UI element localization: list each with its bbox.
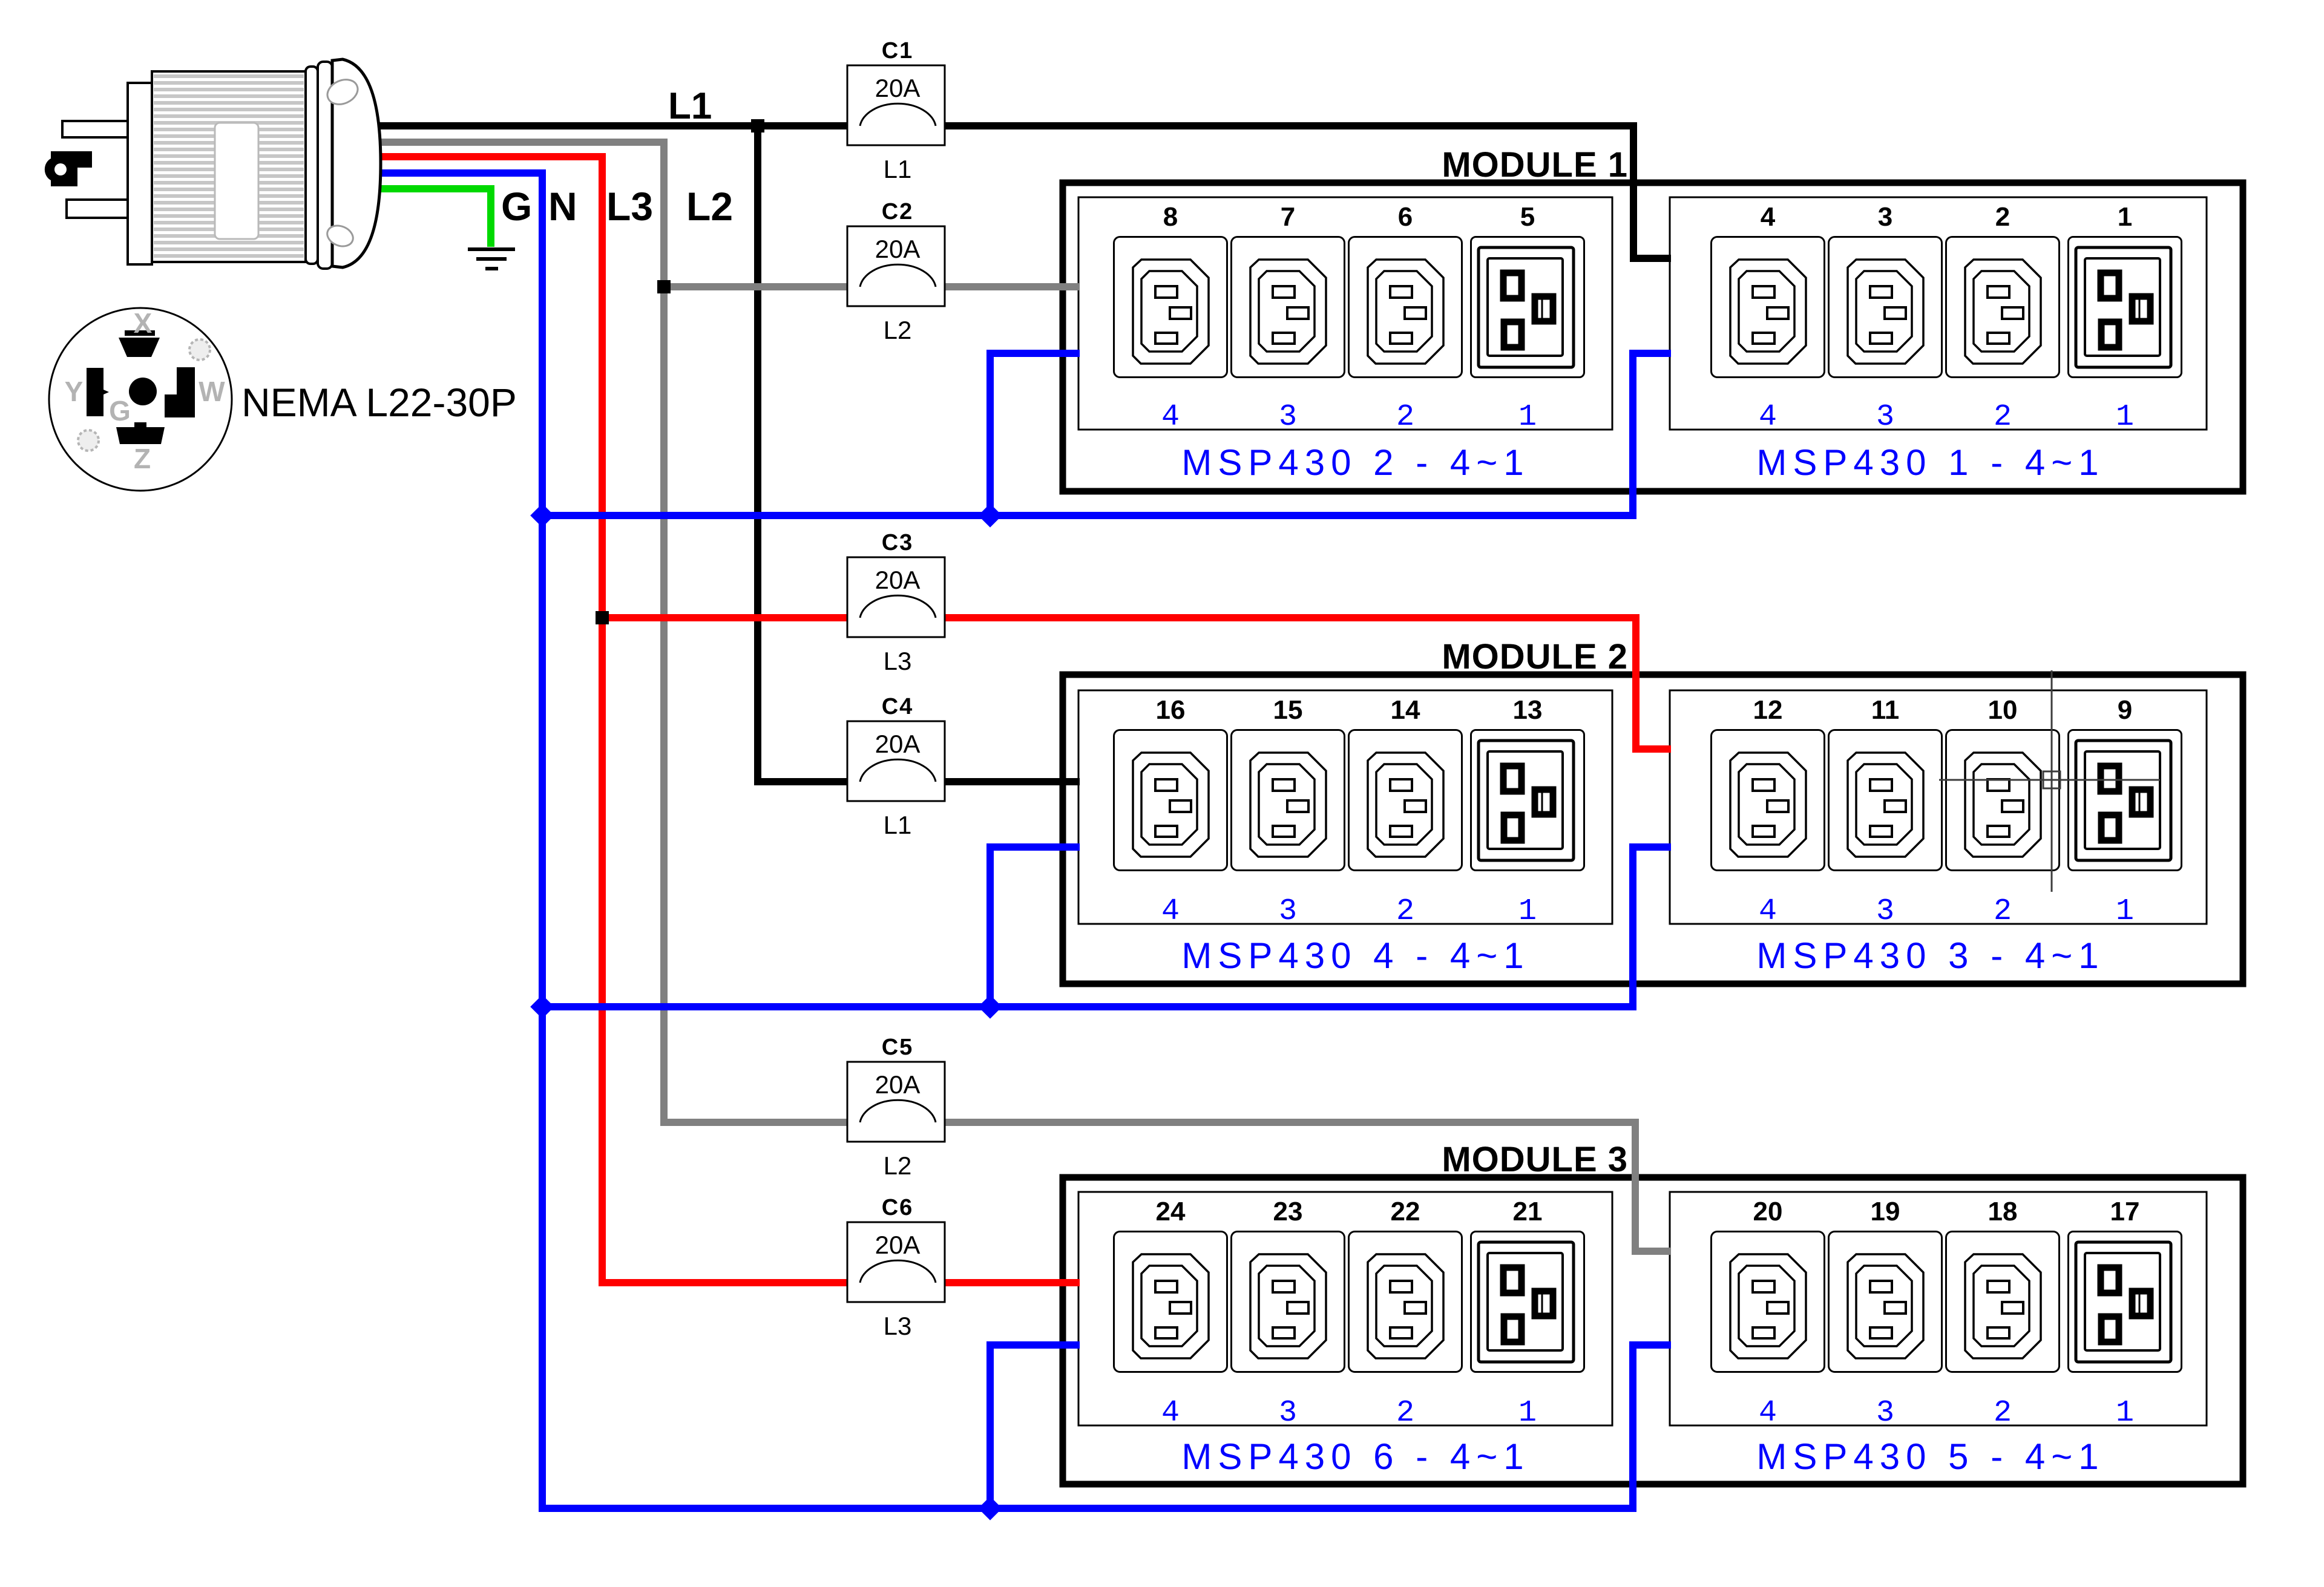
svg-text:L1: L1 [668, 85, 712, 127]
svg-text:C3: C3 [882, 530, 914, 555]
svg-text:20A: 20A [875, 566, 921, 594]
svg-text:MSP430 4 - 4~1: MSP430 4 - 4~1 [1181, 935, 1529, 976]
wire neutral branch module 1 left bank [990, 353, 1080, 515]
wire L2 from C5 to module 3 right bank [936, 1122, 1671, 1251]
svg-text:W: W [199, 376, 225, 407]
circuit breaker C5 20A phase L2 [847, 1035, 945, 1180]
svg-text:3: 3 [1279, 1396, 1297, 1430]
outlet 5 (IEC C19) module 1 left bank [1471, 237, 1584, 378]
node N bus tap module 2 [530, 995, 554, 1019]
svg-text:4: 4 [1161, 400, 1180, 434]
svg-text:12: 12 [1753, 695, 1783, 725]
svg-text:NEMA L22-30P: NEMA L22-30P [241, 380, 517, 425]
svg-text:MODULE 2: MODULE 2 [1442, 637, 1628, 676]
svg-text:Z: Z [134, 443, 151, 474]
svg-text:5: 5 [1520, 202, 1535, 232]
svg-text:15: 15 [1273, 695, 1303, 725]
outlet 3 (IEC C13) module 1 right bank [1829, 237, 1942, 378]
svg-text:4: 4 [1759, 894, 1777, 929]
svg-text:2: 2 [1396, 1396, 1414, 1430]
svg-text:MSP430 1 - 4~1: MSP430 1 - 4~1 [1756, 442, 2104, 483]
module M3 enclosure box [1063, 1177, 2243, 1484]
svg-text:19: 19 [1871, 1197, 1900, 1226]
svg-text:Y: Y [65, 376, 84, 407]
wire L1 branch down to breaker C4 [758, 126, 860, 782]
svg-text:2: 2 [1994, 894, 2012, 929]
svg-text:1: 1 [2116, 400, 2134, 434]
outlet 14 (IEC C13) module 2 left bank [1349, 730, 1462, 871]
outlet bank MSP430 board (module 2 left) [1078, 690, 1612, 924]
pin G center [129, 378, 157, 405]
connector face NEMA L22-30P pin diagram [49, 307, 232, 491]
outlet 23 (IEC C13) module 3 left bank [1232, 1232, 1345, 1372]
wire L3 from C6 to module 3 left bank [936, 1279, 1080, 1286]
svg-text:8: 8 [1163, 202, 1178, 232]
svg-text:16: 16 [1156, 695, 1186, 725]
svg-text:10: 10 [1988, 695, 2018, 725]
outlet 4 (IEC C13) module 1 right bank [1712, 237, 1825, 378]
svg-text:MSP430 3 - 4~1: MSP430 3 - 4~1 [1756, 935, 2104, 976]
svg-text:MSP430 6 - 4~1: MSP430 6 - 4~1 [1181, 1436, 1529, 1477]
svg-text:G: G [109, 395, 131, 427]
svg-text:21: 21 [1513, 1197, 1543, 1226]
wire L2 phase from plug down to breaker C5 [363, 142, 860, 1122]
svg-text:9: 9 [2118, 695, 2132, 725]
node N branch module 3 [978, 1496, 1002, 1520]
outlet bank MSP430 board (module 1 right) [1670, 197, 2207, 430]
circuit breaker C4 20A phase L1 [847, 694, 945, 839]
outlet 10 (IEC C13) module 2 right bank [1946, 730, 2060, 871]
outlet 12 (IEC C13) module 2 right bank [1712, 730, 1825, 871]
svg-text:2: 2 [1396, 400, 1414, 434]
wire neutral bus module 2 [542, 847, 1671, 1007]
wire L3 from C3 to module 2 right bank [936, 618, 1671, 749]
svg-text:C5: C5 [882, 1035, 914, 1060]
svg-text:MODULE 3: MODULE 3 [1442, 1140, 1628, 1179]
svg-text:24: 24 [1156, 1197, 1186, 1226]
svg-text:20A: 20A [875, 74, 921, 102]
svg-text:13: 13 [1513, 695, 1543, 725]
svg-text:3: 3 [1878, 202, 1892, 232]
circuit breaker C1 20A phase L1 [847, 38, 945, 183]
outlet 15 (IEC C13) module 2 left bank [1232, 730, 1345, 871]
outlet bank MSP430 board (module 3 right) [1670, 1192, 2207, 1425]
svg-text:4: 4 [1161, 894, 1180, 929]
outlet 17 (IEC C19) module 3 right bank [2069, 1232, 2182, 1372]
screw bottom-left [78, 430, 99, 451]
outlet bank MSP430 board (module 3 left) [1078, 1192, 1612, 1425]
svg-text:MSP430 5 - 4~1: MSP430 5 - 4~1 [1756, 1436, 2104, 1477]
svg-text:3: 3 [1876, 400, 1894, 434]
svg-text:MSP430 2 - 4~1: MSP430 2 - 4~1 [1181, 442, 1529, 483]
svg-text:G: G [501, 184, 532, 229]
svg-text:20A: 20A [875, 235, 921, 263]
svg-text:L3: L3 [884, 1312, 912, 1340]
svg-text:4: 4 [1759, 400, 1777, 434]
svg-text:4: 4 [1161, 1396, 1180, 1430]
svg-text:L2: L2 [686, 184, 733, 229]
node N branch module 1 [978, 503, 1002, 528]
circuit breaker C2 20A phase L2 [847, 199, 945, 344]
wire ground G from plug to earth symbol [363, 189, 491, 247]
node N bus tap module 1 [530, 503, 554, 528]
svg-text:X: X [134, 307, 153, 339]
svg-text:1: 1 [2116, 894, 2134, 929]
svg-text:1: 1 [1518, 400, 1537, 434]
svg-text:20A: 20A [875, 1231, 921, 1259]
pin W [165, 367, 195, 417]
outlet 18 (IEC C13) module 3 right bank [1946, 1232, 2060, 1372]
wire L1 from C1 to module 1 right bank [936, 126, 1671, 258]
svg-text:1: 1 [1518, 894, 1537, 929]
outlet 21 (IEC C19) module 3 left bank [1471, 1232, 1584, 1372]
svg-text:3: 3 [1279, 400, 1297, 434]
ground (earth) symbol [468, 249, 515, 269]
svg-text:20A: 20A [875, 730, 921, 758]
svg-text:17: 17 [2110, 1197, 2140, 1226]
outlet 11 (IEC C13) module 2 right bank [1829, 730, 1942, 871]
svg-text:2: 2 [1396, 894, 1414, 929]
svg-text:18: 18 [1988, 1197, 2018, 1226]
svg-text:7: 7 [1281, 202, 1295, 232]
outlet 9 (IEC C19) module 2 right bank [2069, 730, 2182, 871]
svg-text:3: 3 [1876, 894, 1894, 929]
outlet bank MSP430 board (module 2 right) [1670, 690, 2207, 924]
svg-text:MODULE 1: MODULE 1 [1442, 145, 1628, 185]
node L2 junction [657, 280, 671, 293]
outlet 22 (IEC C13) module 3 left bank [1349, 1232, 1462, 1372]
outlet 1 (IEC C19) module 1 right bank [2069, 237, 2182, 378]
svg-text:11: 11 [1871, 695, 1900, 725]
svg-text:2: 2 [1995, 202, 2010, 232]
wire L1 phase from plug to breaker C1 [363, 122, 860, 129]
svg-text:6: 6 [1398, 202, 1413, 232]
pin Y [87, 368, 109, 416]
outlet 19 (IEC C13) module 3 right bank [1829, 1232, 1942, 1372]
screw top-right [189, 339, 210, 360]
svg-text:L1: L1 [884, 155, 912, 183]
wire L3 branch to breaker C3 [602, 614, 860, 621]
node L3 junction [596, 611, 609, 624]
svg-text:4: 4 [1759, 1396, 1777, 1430]
svg-text:L2: L2 [884, 316, 912, 344]
svg-text:L3: L3 [884, 647, 912, 675]
wire neutral branch module 2 left bank [990, 847, 1080, 1007]
svg-text:C2: C2 [882, 199, 914, 224]
node L1 junction [751, 119, 764, 133]
outlet 20 (IEC C13) module 3 right bank [1712, 1232, 1825, 1372]
svg-text:22: 22 [1391, 1197, 1420, 1226]
svg-text:L2: L2 [884, 1151, 912, 1180]
wire L1 from C4 to module 2 left bank [936, 778, 1080, 785]
module M2 enclosure box [1063, 675, 2243, 984]
svg-text:20: 20 [1753, 1197, 1783, 1226]
wire neutral N from plug, main bus to module 3 right bank [363, 173, 1671, 1508]
outlet 2 (IEC C13) module 1 right bank [1946, 237, 2060, 378]
pin X [119, 330, 160, 357]
svg-text:4: 4 [1761, 202, 1776, 232]
svg-text:C1: C1 [882, 38, 914, 64]
outlet 8 (IEC C13) module 1 left bank [1114, 237, 1227, 378]
svg-text:1: 1 [2116, 1396, 2134, 1430]
svg-text:C6: C6 [882, 1195, 914, 1220]
pin Z [116, 422, 165, 444]
outlet 13 (IEC C19) module 2 left bank [1471, 730, 1584, 871]
svg-text:2: 2 [1994, 400, 2012, 434]
wire L3 phase from plug down to breaker C6 [363, 157, 860, 1283]
outlet 16 (IEC C13) module 2 left bank [1114, 730, 1227, 871]
svg-text:L1: L1 [884, 811, 912, 839]
plug NEMA L22-30P (pictorial) [45, 59, 381, 269]
svg-text:23: 23 [1273, 1197, 1303, 1226]
svg-text:3: 3 [1279, 894, 1297, 929]
svg-text:1: 1 [1518, 1396, 1537, 1430]
outlet 24 (IEC C13) module 3 left bank [1114, 1232, 1227, 1372]
svg-text:20A: 20A [875, 1070, 921, 1099]
cursor crosshair artifact [1939, 670, 2160, 892]
svg-text:2: 2 [1994, 1396, 2012, 1430]
node N branch module 2 [978, 995, 1002, 1019]
svg-text:C4: C4 [882, 694, 914, 719]
outlet 6 (IEC C13) module 1 left bank [1349, 237, 1462, 378]
svg-text:3: 3 [1876, 1396, 1894, 1430]
wire L2 branch to breaker C2 [664, 283, 860, 290]
circuit breaker C3 20A phase L3 [847, 530, 945, 675]
svg-text:14: 14 [1391, 695, 1420, 725]
outlet 7 (IEC C13) module 1 left bank [1232, 237, 1345, 378]
svg-text:1: 1 [2118, 202, 2132, 232]
wire neutral bus module 1 [542, 353, 1671, 515]
wire L2 from C2 to module 1 left bank [936, 283, 1080, 290]
module M1 enclosure box [1063, 183, 2243, 491]
svg-text:L3: L3 [606, 184, 653, 229]
wire neutral branch module 3 left bank [990, 1345, 1080, 1508]
circuit breaker C6 20A phase L3 [847, 1195, 945, 1340]
svg-text:N: N [548, 184, 577, 229]
outlet bank MSP430 board (module 1 left) [1078, 197, 1612, 430]
